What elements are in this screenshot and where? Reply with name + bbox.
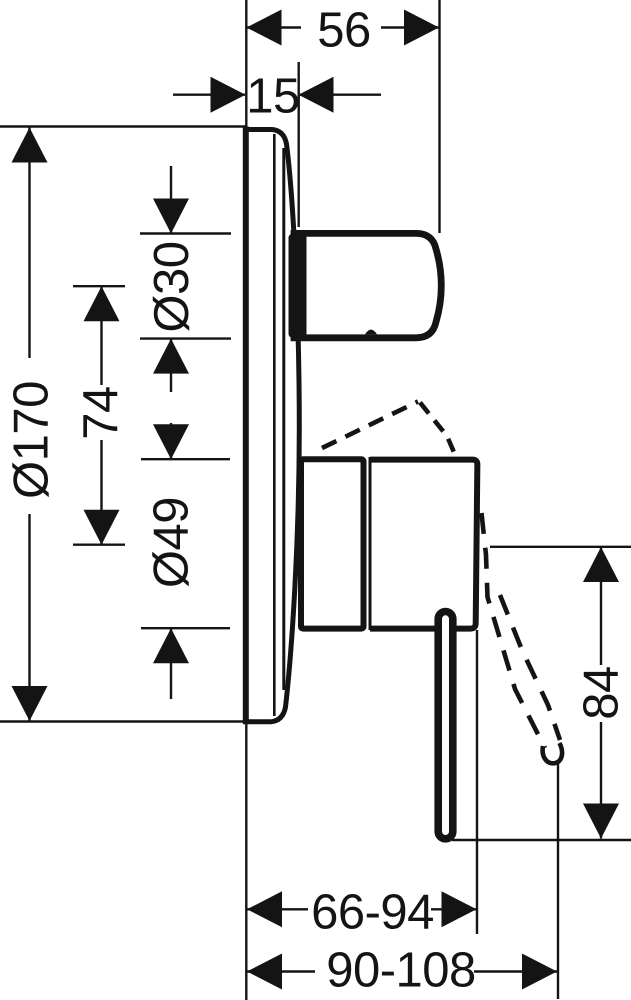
svg-text:Ø170: Ø170 (5, 381, 59, 499)
dimension line 84 (600, 547, 602, 665)
dimension line D30 (170, 166, 172, 234)
arrow 84 top (583, 547, 619, 582)
tick bottom of sleeve for D49 (141, 627, 230, 629)
svg-text:84: 84 (575, 666, 629, 720)
arrow 56 right (404, 10, 439, 46)
knob index notch (365, 330, 377, 335)
arrow D170 bottom (12, 686, 48, 721)
svg-text:74: 74 (74, 386, 128, 440)
dimension line D170 (28, 127, 30, 358)
dashed rotated handle right edge from apex (420, 403, 459, 465)
dimension line 90-108 (247, 970, 315, 972)
extension line handle axis for 84 (490, 546, 631, 548)
extension line right of 56 (knob face) (438, 0, 440, 233)
dimension line 15 (173, 93, 245, 95)
dashed lever tip cap (543, 743, 562, 763)
svg-text:15: 15 (246, 70, 300, 124)
arrow D49 top (153, 424, 189, 459)
dashed rotated lever left edge (482, 513, 546, 748)
knob (volume control) (294, 233, 441, 337)
tick bottom of knob for D30 (140, 337, 231, 339)
escutcheon flange left (wall) edge (243, 127, 249, 724)
arrow 90-108 left (247, 954, 282, 990)
arrow 56 left (247, 10, 282, 46)
handle body fill (370, 460, 477, 629)
lever pin (438, 612, 453, 839)
dimension line 66-94 (247, 908, 308, 910)
arrow 15 left (211, 77, 246, 113)
arrow 84 bottom (583, 804, 619, 839)
knob / flange junction shading (289, 234, 307, 338)
tick handle axis for 74 (73, 544, 125, 546)
tick top of knob for D30 (140, 232, 231, 234)
arrow 74 top (84, 286, 120, 321)
arrow D30 bottom (153, 339, 189, 374)
handle body left edge (369, 457, 372, 630)
tick knob axis for 74 (73, 285, 125, 287)
svg-text:Ø30: Ø30 (145, 241, 199, 332)
dimension line 56 (247, 26, 302, 28)
flange dome base inner line (282, 148, 285, 690)
arrow 74 bottom (84, 510, 120, 545)
handle sleeve (301, 459, 364, 628)
flange front face inner line (273, 134, 276, 716)
arrow 90-108 right (522, 954, 557, 990)
arrow 66-94 left (247, 891, 282, 927)
svg-text:56: 56 (317, 4, 371, 58)
arrow D30 top (153, 199, 189, 234)
extension line for 15 (flange front face) (298, 62, 300, 227)
dimension line D49 (170, 423, 172, 459)
extension line top of flange for D170 (0, 125, 246, 127)
arrow D49 bottom (153, 628, 189, 663)
arrow D170 top (12, 128, 48, 163)
extension line lever tip for 84 (452, 839, 631, 841)
dimension line 74 (100, 286, 102, 385)
escutcheon flange outline: top edge, convex front contour, bottom edge (243, 130, 299, 722)
extension line handle face for 66-94 (476, 630, 478, 934)
arrow 15 right (299, 77, 334, 113)
extension line dashed lever tip for 90-108 (557, 763, 559, 999)
arrow 66-94 right (442, 891, 477, 927)
dashed rotated handle top edge (322, 402, 560, 749)
handle body top/right/bottom edges (370, 460, 477, 629)
svg-text:90-108: 90-108 (326, 944, 476, 998)
extension line bottom of flange for D170 (0, 720, 246, 722)
dashed rotated lever right edge (500, 595, 560, 740)
svg-text:Ø49: Ø49 (145, 497, 199, 588)
svg-text:66-94: 66-94 (311, 886, 434, 940)
wall plane extension line (245, 0, 247, 1000)
tick top of sleeve for D49 (141, 458, 230, 460)
